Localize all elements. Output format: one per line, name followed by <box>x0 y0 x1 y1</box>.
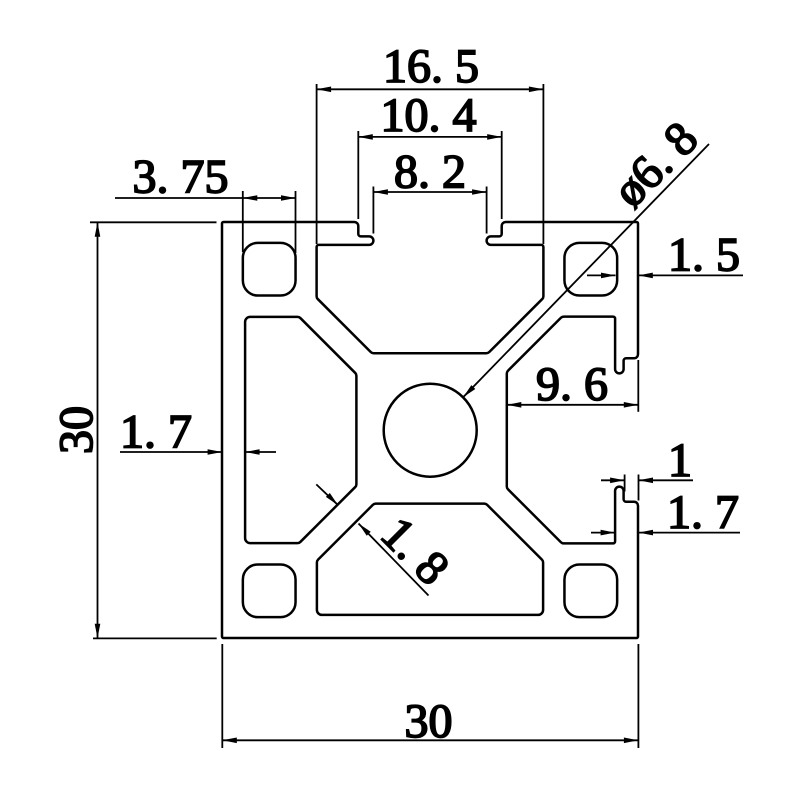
dimension 1.5 (right slot lip wall thickness) <box>587 229 743 282</box>
svg-text:1. 5: 1. 5 <box>668 229 740 282</box>
svg-text:8. 2: 8. 2 <box>394 146 466 199</box>
svg-text:1. 7: 1. 7 <box>667 486 739 539</box>
center bore hole diameter 6.8 <box>384 384 477 477</box>
svg-text:9. 6: 9. 6 <box>536 358 608 411</box>
svg-text:30: 30 <box>405 695 453 748</box>
left inner cavity <box>245 317 356 543</box>
profile outer boundary with top T-slot and right T-slot <box>222 222 638 638</box>
dimension 1 (right slot lip tip gap) <box>601 434 693 501</box>
dimension 30 (overall width, bottom) <box>222 644 638 748</box>
corner screw boss hole bottom-right <box>564 564 617 617</box>
dimension 1.7 (left wall thickness) <box>120 406 276 459</box>
corner screw boss hole bottom-left <box>243 564 296 617</box>
svg-text:3. 75: 3. 75 <box>133 150 229 203</box>
dimension 1.8 (diagonal web thickness leader) <box>316 484 459 595</box>
svg-text:1: 1 <box>668 434 692 487</box>
svg-text:30: 30 <box>50 406 103 454</box>
svg-text:10. 4: 10. 4 <box>381 89 477 142</box>
dimension 9.6 (right slot cavity depth) <box>507 358 639 412</box>
dimension 3.75 (corner screw boss hole width) <box>115 150 296 253</box>
dimension 8.2 (slot opening width, top) <box>373 146 486 234</box>
corner screw boss hole top-left <box>243 243 296 296</box>
dimension 30 (overall height, left) <box>50 222 217 638</box>
dimension 1.7 (right slot lower lip thickness) <box>591 486 740 539</box>
bottom inner cavity <box>317 504 543 615</box>
corner screw boss hole top-right <box>564 243 617 296</box>
dimension diameter 6.8 (center bore leader) <box>463 112 709 397</box>
svg-text:1. 7: 1. 7 <box>120 406 192 459</box>
dimension 16.5 (slot cavity width, top) <box>317 40 544 244</box>
dimension 10.4 (slot neck width, top) <box>358 89 501 219</box>
svg-text:ø6. 8: ø6. 8 <box>603 112 708 217</box>
svg-text:1. 8: 1. 8 <box>371 507 459 595</box>
svg-text:16. 5: 16. 5 <box>383 40 479 93</box>
